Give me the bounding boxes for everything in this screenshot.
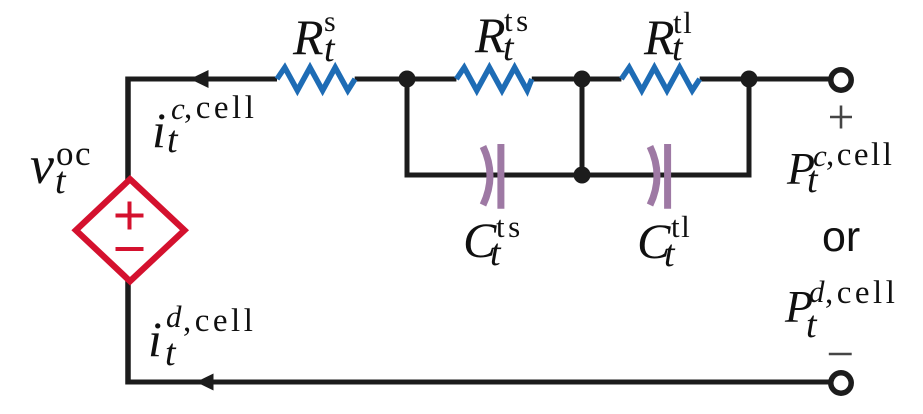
dependent voltage source U1 diamond — [76, 179, 185, 281]
resistor R_t^s zigzag — [277, 68, 355, 91]
wire top horizontal segment (R_ts to R_tl) — [532, 77, 622, 82]
wire top horizontal left segment — [126, 77, 278, 82]
label C_t^tl — [0, 0, 923, 1]
wire vertical stub at node A — [405, 79, 410, 178]
label P_t^c,cell (charge power) — [0, 0, 923, 1]
label R_t^s (series resistance) — [0, 0, 923, 1]
label R_t^tl — [0, 0, 923, 1]
voltage source plus sign — [116, 202, 144, 230]
capacitor C_t^tl curved plate — [650, 147, 657, 206]
label C_t^ts — [0, 0, 923, 1]
terminal bottom (open circle) — [831, 373, 851, 393]
label i_t^c,cell (charge current) — [0, 0, 923, 1]
wire bottom horizontal — [126, 380, 833, 385]
label v_t^oc (open-circuit voltage) — [0, 0, 923, 1]
capacitor C_t^tl straight plate — [664, 144, 671, 209]
wire vertical stub at node C — [747, 79, 752, 178]
arrow current direction bottom (pointing left) — [196, 374, 214, 391]
node B junction dot — [574, 71, 591, 88]
label i_t^d,cell (discharge current) — [0, 0, 923, 1]
capacitor C_t^ts straight plate — [497, 144, 504, 209]
wire top horizontal middle segment (node1 to R_ts) — [355, 77, 457, 82]
label P_t^d,cell (discharge power) — [0, 0, 923, 1]
terminal top (open circle) — [831, 70, 851, 90]
wire vertical stub at node B — [580, 79, 585, 175]
node D junction dot (capacitor row) — [574, 167, 591, 184]
terminal plus polarity mark — [830, 106, 852, 129]
voltage source minus sign — [116, 247, 144, 251]
wire left vertical upper (source top to top wire) — [125, 77, 131, 183]
label R_t^ts — [0, 0, 923, 1]
resistor R_t^tl zigzag — [621, 68, 699, 91]
capacitor C_t^ts curved plate — [483, 147, 490, 206]
label or — [0, 0, 923, 1]
resistor R_t^ts zigzag — [456, 68, 531, 91]
node A junction dot — [399, 71, 416, 88]
node C junction dot — [741, 71, 758, 88]
wire top horizontal right segment (R_tl to terminal) — [700, 77, 832, 82]
arrow current direction top (pointing left) — [190, 70, 209, 88]
terminal minus polarity mark — [829, 353, 852, 356]
wire left vertical lower (source bottom to bottom wire) — [125, 279, 131, 385]
wire capacitor row horizontal — [405, 173, 752, 178]
